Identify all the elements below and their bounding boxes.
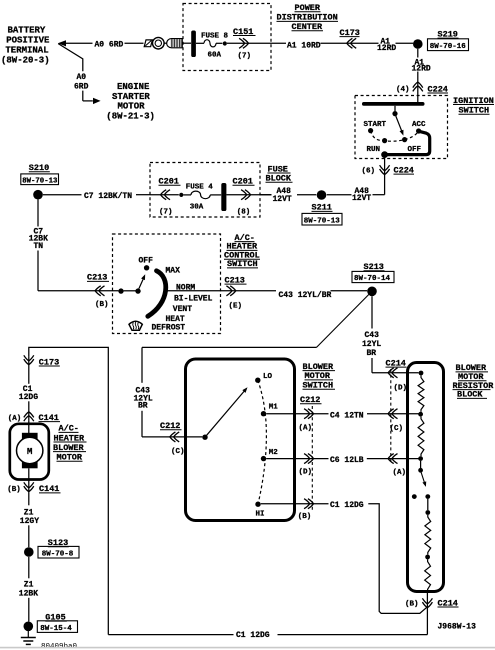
svg-text:6RD: 6RD xyxy=(74,82,89,91)
svg-text:(8): (8) xyxy=(237,208,251,216)
svg-text:FUSE 8: FUSE 8 xyxy=(201,32,229,40)
svg-text:TERMINAL: TERMINAL xyxy=(5,45,48,55)
svg-text:(C): (C) xyxy=(390,425,404,433)
svg-text:A1 10RD: A1 10RD xyxy=(287,41,321,50)
svg-text:MAX: MAX xyxy=(166,266,181,275)
svg-text:C4 12TN: C4 12TN xyxy=(330,411,364,420)
svg-text:8W-15-4: 8W-15-4 xyxy=(40,625,72,633)
svg-text:(6): (6) xyxy=(362,167,376,175)
svg-text:C1 12DG: C1 12DG xyxy=(236,631,270,640)
svg-text:HEAT: HEAT xyxy=(166,315,185,324)
svg-text:(A): (A) xyxy=(8,415,22,423)
svg-text:30A: 30A xyxy=(190,203,204,211)
svg-text:C43: C43 xyxy=(365,331,380,340)
svg-text:STARTER: STARTER xyxy=(112,92,150,102)
svg-text:TN: TN xyxy=(34,242,44,251)
svg-text:(A): (A) xyxy=(299,424,313,432)
svg-text:RUN: RUN xyxy=(367,146,381,154)
svg-text:(B): (B) xyxy=(405,600,419,608)
svg-text:8W-70-13: 8W-70-13 xyxy=(22,177,58,185)
svg-text:12VT: 12VT xyxy=(273,195,292,204)
svg-text:(7): (7) xyxy=(159,208,173,216)
svg-text:FUSE 4: FUSE 4 xyxy=(186,183,214,191)
svg-text:C1 12DG: C1 12DG xyxy=(330,501,364,510)
svg-text:START: START xyxy=(364,121,387,129)
svg-text:LO: LO xyxy=(263,373,273,381)
svg-text:OFF: OFF xyxy=(408,146,422,154)
svg-text:8W-70-13: 8W-70-13 xyxy=(304,217,341,225)
svg-text:(D): (D) xyxy=(394,384,408,392)
svg-text:(C): (C) xyxy=(171,448,185,456)
svg-text:J968W-13: J968W-13 xyxy=(438,622,477,631)
svg-text:BR: BR xyxy=(367,349,377,358)
svg-text:(A): (A) xyxy=(393,469,407,477)
svg-text:BR: BR xyxy=(138,402,148,411)
svg-text:12VT: 12VT xyxy=(352,194,371,203)
svg-text:BATTERY: BATTERY xyxy=(8,26,46,36)
svg-text:(8W-21-3): (8W-21-3) xyxy=(106,111,155,121)
svg-text:12BK: 12BK xyxy=(19,589,38,598)
svg-text:M1: M1 xyxy=(269,403,279,411)
svg-text:60A: 60A xyxy=(208,52,222,60)
svg-text:POSITIVE: POSITIVE xyxy=(6,36,50,46)
svg-text:M2: M2 xyxy=(269,449,279,457)
svg-text:BI-LEVEL: BI-LEVEL xyxy=(174,294,213,303)
svg-text:HI: HI xyxy=(256,510,265,518)
svg-text:80409ba0: 80409ba0 xyxy=(41,643,78,650)
svg-text:ENGINE: ENGINE xyxy=(117,82,150,92)
svg-text:C43 12YL/BR: C43 12YL/BR xyxy=(279,291,332,300)
svg-text:(B): (B) xyxy=(95,301,109,309)
svg-text:(4): (4) xyxy=(396,86,410,94)
svg-text:12RD: 12RD xyxy=(412,64,431,73)
svg-text:8W-70-16: 8W-70-16 xyxy=(430,43,467,51)
svg-text:MOTOR: MOTOR xyxy=(118,102,146,112)
svg-text:(B): (B) xyxy=(298,513,312,521)
svg-text:Z1: Z1 xyxy=(24,580,34,589)
svg-text:8W-70-8: 8W-70-8 xyxy=(42,550,74,558)
svg-text:(D): (D) xyxy=(299,468,313,476)
svg-text:C7 12BK/TN: C7 12BK/TN xyxy=(84,192,132,201)
svg-text:A0: A0 xyxy=(77,73,87,82)
svg-text:M: M xyxy=(27,447,32,457)
svg-text:(8W-20-3): (8W-20-3) xyxy=(1,55,50,65)
svg-text:12DG: 12DG xyxy=(19,393,38,402)
svg-text:(B): (B) xyxy=(7,486,21,494)
svg-text:DEFROST: DEFROST xyxy=(152,324,186,333)
svg-text:12GY: 12GY xyxy=(20,517,39,526)
svg-text:12RD: 12RD xyxy=(377,44,396,53)
svg-text:OFF: OFF xyxy=(139,256,154,265)
svg-text:A0 6RD: A0 6RD xyxy=(95,40,124,49)
svg-text:(7): (7) xyxy=(238,52,252,60)
svg-text:ACC: ACC xyxy=(412,121,426,129)
svg-text:C6 12LB: C6 12LB xyxy=(330,456,364,465)
svg-text:(E): (E) xyxy=(229,302,243,310)
svg-text:12YL: 12YL xyxy=(362,340,381,349)
svg-text:8W-70-14: 8W-70-14 xyxy=(354,275,391,283)
svg-text:VENT: VENT xyxy=(173,305,192,314)
